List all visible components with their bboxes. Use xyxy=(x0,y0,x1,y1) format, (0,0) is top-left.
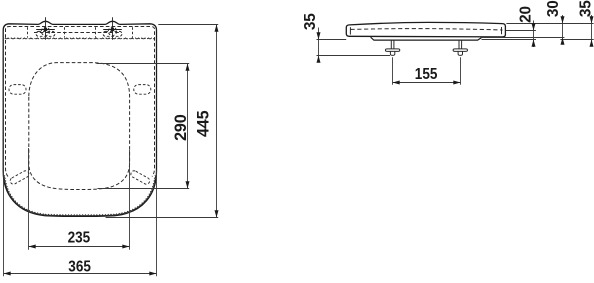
dim 290 line xyxy=(187,64,189,189)
top view: hinge cap dashed circle xyxy=(41,27,49,35)
dim 35 left line xyxy=(318,28,320,63)
dim 20 line xyxy=(533,21,535,48)
top view: hidden recess edge (dashed) xyxy=(64,27,66,37)
top view: seat lid outer contour xyxy=(3,21,156,216)
side ext: buffer underside line A xyxy=(482,39,537,41)
side ext: ring underside line xyxy=(482,37,565,39)
dim 445 extension lines xyxy=(158,24,218,26)
side view: lid profile xyxy=(346,22,505,37)
dim 35 left extension lines xyxy=(317,39,347,41)
svg-text:20: 20 xyxy=(517,6,534,23)
top view: hinge cap dashed circle xyxy=(108,27,116,35)
dim 290 extension lines xyxy=(96,63,189,65)
svg-text:155: 155 xyxy=(415,66,438,83)
dim 365 extension lines xyxy=(3,170,5,276)
dim 155 extension lines xyxy=(392,57,394,85)
top view: hinge pivot dot xyxy=(44,28,48,32)
side view: hinge pin stem xyxy=(458,40,460,49)
top view: left side bumper (hidden) xyxy=(9,85,26,95)
top view: front-left bumper (hidden) xyxy=(9,170,30,186)
svg-text:365: 365 xyxy=(68,259,91,276)
dim 155 line xyxy=(393,82,461,84)
side view: hinge pin nub xyxy=(458,51,462,55)
side view: lid right edge tick xyxy=(501,27,503,34)
dim 365 line xyxy=(4,273,157,275)
side view: hinge pin foot xyxy=(385,49,399,52)
top view: hidden recess edge (dashed) xyxy=(132,27,134,37)
side view: lid centerline (dashed) xyxy=(351,29,503,30)
dim 235 line xyxy=(29,246,130,248)
dim 30 line xyxy=(562,15,564,45)
side ext: top surface line xyxy=(506,23,593,25)
side view: hinge pin nub xyxy=(390,51,394,55)
side view: seat ring below lid xyxy=(371,37,482,40)
top view: hidden recess edge (dashed) xyxy=(27,27,29,37)
top view: scalloped hidden edge near hinges xyxy=(5,37,155,40)
dim 445 line xyxy=(216,25,218,218)
top view: hinge fitting dashed outline xyxy=(36,31,55,36)
dim 35 right line xyxy=(591,15,593,47)
top view: hinge pivot dot xyxy=(111,28,115,32)
svg-text:35: 35 xyxy=(578,0,594,17)
side view: lid left edge tick xyxy=(349,27,351,34)
top view: right side bumper (hidden) xyxy=(134,85,151,95)
svg-text:290: 290 xyxy=(172,114,190,141)
top view: front-right bumper (hidden) xyxy=(130,170,151,186)
top view: hinge centerline cross xyxy=(36,29,55,31)
svg-text:30: 30 xyxy=(545,0,562,17)
side ext: buffer underside line B xyxy=(560,39,593,41)
top view: hidden seat ring contour (dashed) xyxy=(6,27,155,177)
top view: hidden hinge bar (dashed) xyxy=(34,32,122,34)
top view: hinge centerline cross xyxy=(103,29,122,31)
dim 235 extension lines xyxy=(28,148,30,250)
side view: hinge pin foot xyxy=(453,49,467,52)
svg-text:35: 35 xyxy=(302,13,319,30)
svg-text:445: 445 xyxy=(194,110,212,137)
top view: scalloped inner edge along bottom xyxy=(4,175,155,215)
side ext: lid underside line xyxy=(506,30,536,32)
svg-text:235: 235 xyxy=(68,230,91,247)
top view: seat opening (hidden, dashed) xyxy=(29,63,130,190)
top view: hidden recess edge (dashed) xyxy=(95,27,97,37)
side view: hinge pin stem xyxy=(390,40,392,49)
top view: hinge fitting dashed outline xyxy=(103,31,122,36)
